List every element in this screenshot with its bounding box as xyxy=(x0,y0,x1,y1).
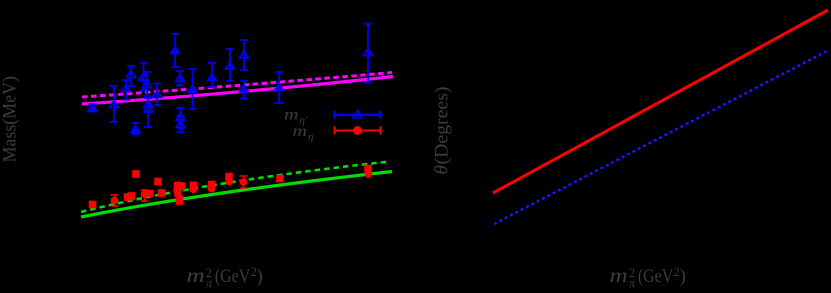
legend eta-prime sample: blue errorbar with open triangle xyxy=(335,111,381,119)
blue data point 1 xyxy=(88,104,97,112)
legend label m_eta-prime xyxy=(284,107,308,127)
magenta dashed fit curve (eta-prime, dashed) xyxy=(82,73,392,98)
blue data point 15 xyxy=(188,69,197,109)
legend eta sample: red errorbar with filled circle xyxy=(335,126,381,135)
blue data point 5 xyxy=(131,123,140,134)
blue data point 11 xyxy=(171,34,180,67)
blue data point 19 xyxy=(240,81,249,99)
left x-axis label m_pi^2 (GeV^2) xyxy=(187,265,263,291)
svg-text:π: π xyxy=(629,276,636,288)
blue data point 16 xyxy=(208,63,217,87)
svg-text:m: m xyxy=(284,107,299,124)
red data point 17 xyxy=(208,181,216,189)
red data point 9 xyxy=(158,189,166,197)
svg-text:Mass(MeV): Mass(MeV) xyxy=(1,76,21,163)
red data point 3 xyxy=(124,193,132,201)
red data point 14 xyxy=(176,196,184,204)
blue data point 8 xyxy=(144,98,153,127)
svg-text:m: m xyxy=(187,265,205,287)
red data point 8 xyxy=(154,178,162,186)
red data point 10 xyxy=(174,182,182,190)
svg-text:): ) xyxy=(257,265,263,287)
blue data point 18 xyxy=(240,40,249,70)
red data point 18 xyxy=(208,185,216,193)
blue data point 20 xyxy=(275,72,284,103)
blue data point 10 xyxy=(153,84,162,106)
red data point 5 xyxy=(132,170,140,178)
red data point 21 xyxy=(240,176,248,188)
svg-text:η: η xyxy=(308,131,313,143)
svg-text:m: m xyxy=(293,123,308,140)
svg-text:θ: θ xyxy=(432,165,453,174)
blue data point 14 xyxy=(176,116,185,132)
svg-text:(GeV: (GeV xyxy=(215,265,251,287)
blue data point 9 xyxy=(144,105,153,112)
blue data point 12 xyxy=(176,71,185,86)
svg-text:): ) xyxy=(680,265,686,287)
blue data point 6 xyxy=(139,63,148,90)
red data point 2 xyxy=(111,195,119,206)
red data point 11 xyxy=(178,182,186,190)
svg-text:π: π xyxy=(206,276,213,288)
svg-text:(Degrees): (Degrees) xyxy=(432,87,453,165)
svg-text:(GeV: (GeV xyxy=(638,265,674,287)
legend label m_eta xyxy=(293,123,314,143)
blue dashed mixing-angle line xyxy=(494,50,829,224)
blue data point 3 xyxy=(122,80,131,100)
red data point 7 xyxy=(146,190,154,198)
red data point 24 xyxy=(365,170,373,178)
red data point 20 xyxy=(225,178,233,186)
blue data point 21 xyxy=(364,24,373,83)
red data point 13 xyxy=(174,189,182,197)
red data point 12 xyxy=(173,186,181,194)
svg-text:m: m xyxy=(610,265,628,287)
magenta solid fit curve (eta-prime) xyxy=(82,77,393,105)
red data point 19 xyxy=(225,173,233,181)
green dashed fit curve (eta, dashed) xyxy=(81,162,390,213)
red data point 1 xyxy=(89,201,97,209)
red data point 4 xyxy=(128,192,136,200)
blue data point 4 xyxy=(127,66,136,86)
red data point 6 xyxy=(141,190,149,201)
blue data point 2 xyxy=(110,86,119,122)
green solid fit curve (eta) xyxy=(81,172,392,218)
red solid mixing-angle line xyxy=(493,10,828,193)
red data point 22 xyxy=(276,175,284,183)
blue data point 13 xyxy=(176,108,185,128)
red data point 23 xyxy=(364,165,372,173)
red data point 16 xyxy=(189,185,197,193)
red data point 15 xyxy=(190,182,198,190)
blue data point 7 xyxy=(143,72,152,96)
right y-axis label theta(Degrees) xyxy=(432,87,453,175)
blue data point 17 xyxy=(226,49,235,81)
right x-axis label m_pi^2 (GeV^2) xyxy=(610,265,686,291)
